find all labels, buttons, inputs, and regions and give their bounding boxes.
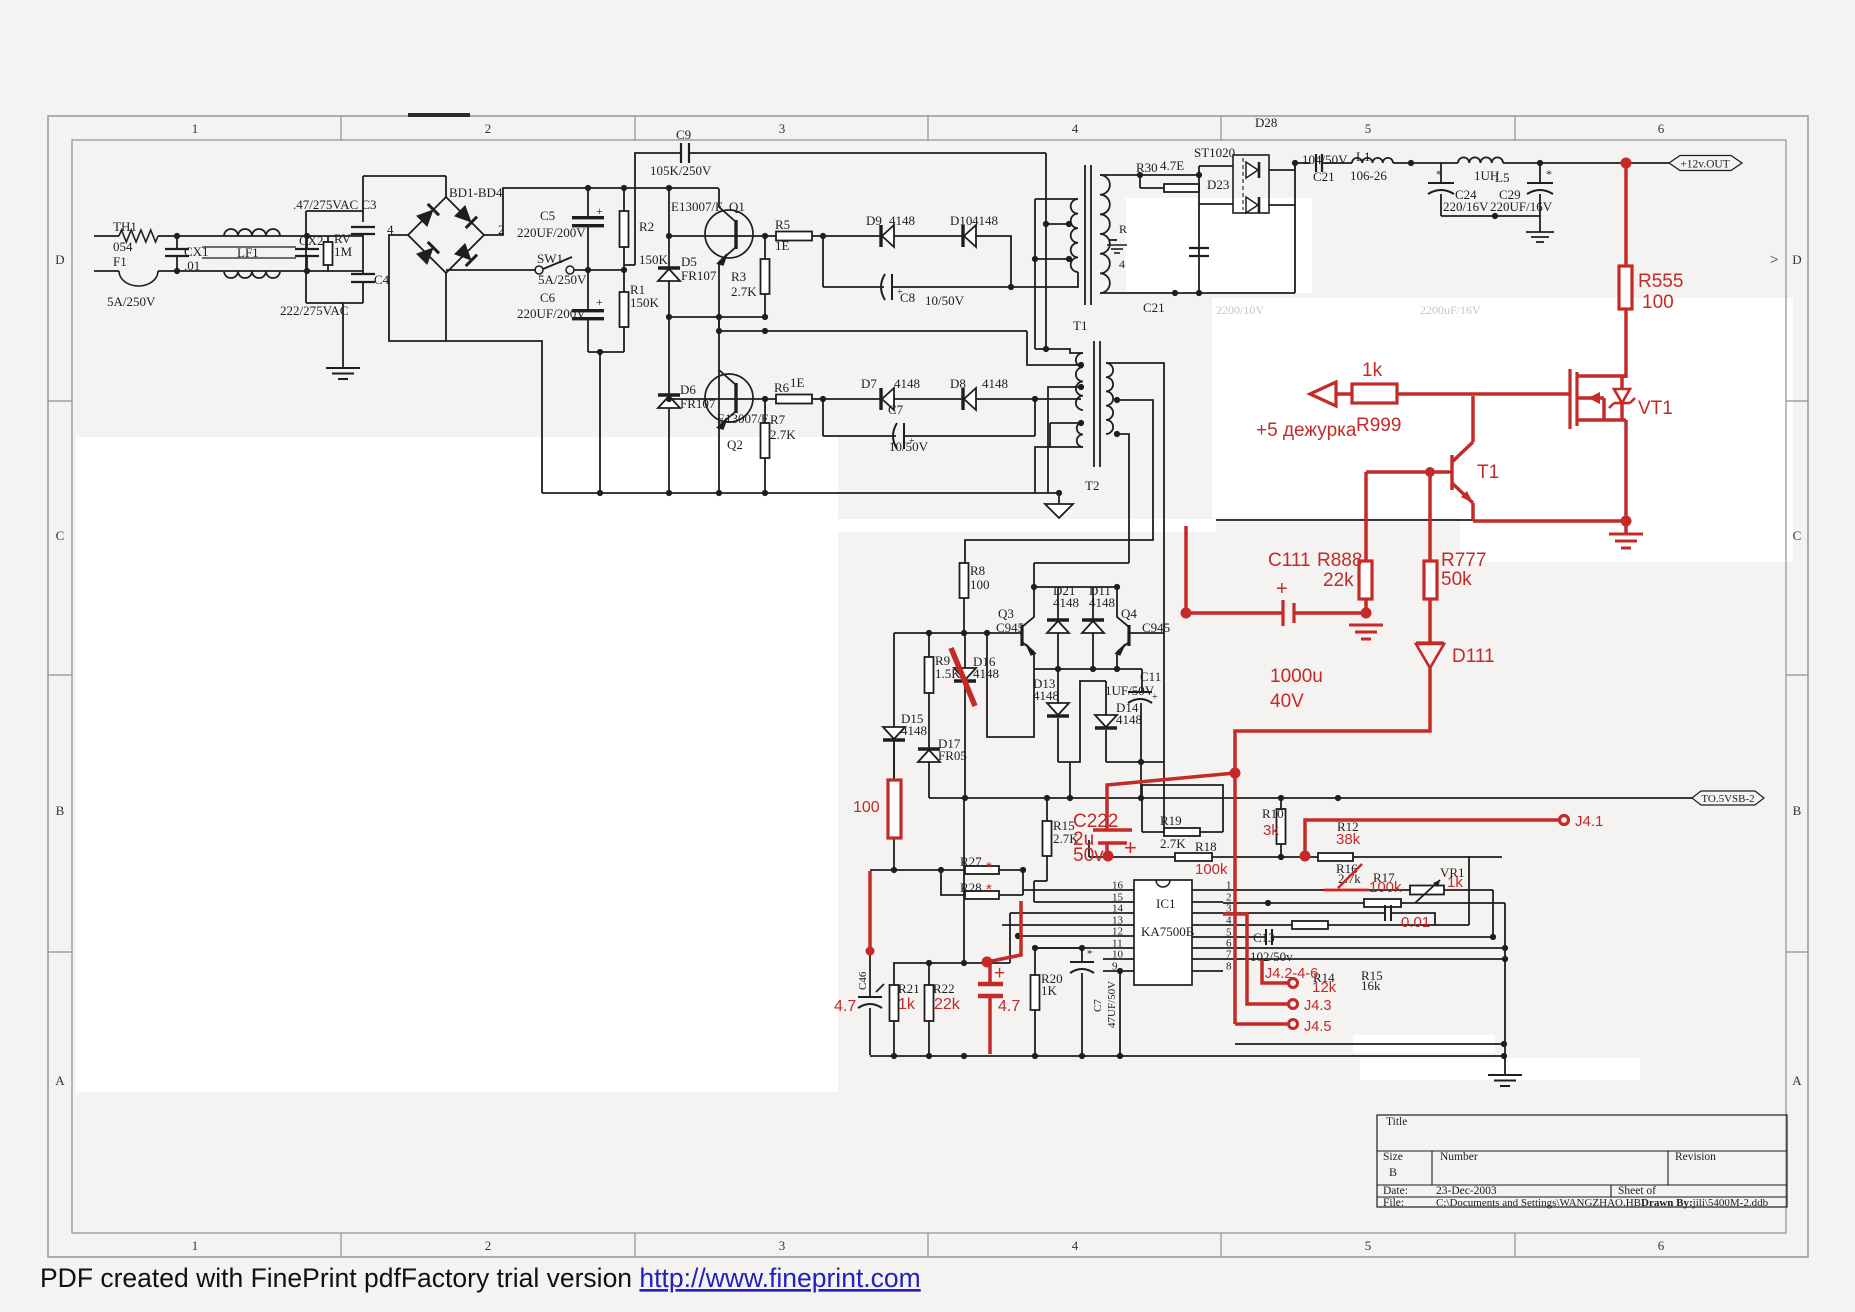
red label VT1: [1638, 398, 1673, 419]
svg-text:PDF created with FinePrint pdf: PDF created with FinePrint pdfFactory tr…: [40, 1263, 921, 1293]
svg-text:0.01: 0.01: [1401, 914, 1430, 931]
wire: [1401, 902, 1505, 904]
resistor R19 loop: [1142, 785, 1223, 851]
switch SW1: [535, 251, 587, 287]
wire: [94, 235, 119, 237]
svg-text:C21: C21: [1313, 169, 1335, 184]
svg-text:R777: R777: [1441, 550, 1486, 571]
red label C111 plus: [1276, 578, 1288, 600]
wire: [1198, 166, 1200, 293]
wire: [1009, 913, 1011, 963]
junction: [926, 960, 932, 966]
svg-text:*: *: [986, 859, 992, 876]
red star R27: [986, 859, 992, 876]
svg-text:4.7: 4.7: [834, 998, 856, 1015]
wire C9 left: [635, 153, 681, 265]
svg-text:16k: 16k: [1361, 978, 1381, 993]
wire gnd rail 3: [1235, 1043, 1504, 1045]
svg-text:+: +: [1276, 578, 1288, 600]
wire: [1444, 889, 1493, 891]
red label 100k R18: [1195, 861, 1228, 878]
svg-text:+: +: [596, 295, 603, 309]
svg-text:4148: 4148: [1053, 595, 1079, 610]
wire: [718, 317, 720, 331]
wire: [718, 188, 719, 189]
red label 4.7b: [998, 998, 1020, 1015]
scan artifact mark: [408, 113, 470, 117]
svg-text:C: C: [56, 528, 65, 543]
wire: [574, 269, 624, 271]
svg-text:1E: 1E: [790, 375, 805, 390]
svg-text:J4.3: J4.3: [1304, 998, 1331, 1014]
red label 22k R22: [934, 996, 961, 1013]
transistor Q4: [1116, 587, 1171, 655]
junction: [961, 630, 967, 636]
wire: [1045, 153, 1047, 349]
red label 22k: [1323, 570, 1354, 591]
junction: [1114, 397, 1120, 403]
pin 11: [1103, 938, 1134, 950]
resistor R28: [960, 880, 999, 899]
svg-text:220UF/200V: 220UF/200V: [517, 306, 586, 321]
wire to gnd right: [1504, 903, 1506, 1075]
inductor L1: [1350, 149, 1393, 183]
junction: [1114, 584, 1120, 590]
junction: [1078, 384, 1084, 390]
red junction: [866, 947, 875, 956]
svg-text:TO.5VSB-2: TO.5VSB-2: [1701, 793, 1754, 805]
wire: [1049, 423, 1051, 447]
resistor R9: [925, 633, 962, 700]
svg-text:4.7E: 4.7E: [1160, 158, 1184, 173]
title block: [1377, 1115, 1787, 1209]
ghost text 1: [1216, 303, 1264, 317]
junction: [820, 396, 826, 402]
junction: [938, 867, 944, 873]
wire: [1272, 936, 1493, 938]
red wire J-bus: [1233, 773, 1237, 1024]
wire R27 row: [870, 869, 965, 871]
svg-text:Date:: Date:: [1383, 1185, 1408, 1197]
label D28: [1255, 115, 1277, 130]
svg-text:4148: 4148: [901, 723, 927, 738]
junction: [961, 1053, 967, 1059]
junction: [1137, 172, 1143, 178]
red label 1000u: [1270, 666, 1323, 687]
svg-text:220UF/200V: 220UF/200V: [517, 225, 586, 240]
junction: [1278, 795, 1284, 801]
svg-text:10/50V: 10/50V: [925, 293, 965, 308]
svg-text:L5: L5: [1495, 170, 1509, 185]
wire sec gnd rail: [1216, 519, 1474, 521]
junction: [1015, 933, 1021, 939]
wire: [158, 235, 307, 237]
red wire diag C222: [1107, 773, 1235, 830]
svg-text:+: +: [897, 287, 903, 298]
diode D5: [658, 188, 717, 317]
junction: [1032, 945, 1038, 951]
red label R555: [1638, 271, 1683, 292]
junction: [1502, 945, 1508, 951]
pin 5: [1192, 927, 1232, 939]
svg-text:222/275VAC: 222/275VAC: [280, 303, 348, 318]
red MOSFET VT1: [1570, 369, 1635, 429]
red label 50k: [1441, 569, 1472, 590]
wire pin11: [1035, 947, 1103, 949]
svg-text:5: 5: [1365, 1238, 1372, 1253]
svg-text:R999: R999: [1356, 415, 1401, 436]
wire: [1033, 563, 1035, 587]
svg-text:C6: C6: [540, 290, 556, 305]
junction: [666, 233, 672, 239]
junction: [762, 328, 768, 334]
junction: [597, 349, 603, 355]
red slash R16: [1338, 864, 1362, 888]
svg-text:C46: C46: [857, 971, 869, 990]
junction: [1114, 666, 1120, 672]
svg-text:2: 2: [485, 121, 492, 136]
svg-text:+: +: [1152, 692, 1158, 703]
svg-text:*: *: [1546, 167, 1552, 181]
svg-text:Number: Number: [1440, 1151, 1478, 1163]
wire: [1034, 199, 1036, 349]
label 2.7k R16: [1338, 871, 1361, 886]
wire drive node: [717, 330, 1027, 332]
wire: [1035, 349, 1083, 353]
svg-text:R6: R6: [774, 380, 790, 395]
junction: [1008, 284, 1014, 290]
wire: [1033, 881, 1035, 902]
red label 40V: [1270, 691, 1304, 712]
junction: [1492, 213, 1498, 219]
svg-text:D111: D111: [1452, 646, 1495, 667]
white strip mid: [838, 519, 1216, 532]
junction: [1138, 759, 1144, 765]
junction: [926, 1053, 932, 1059]
capacitor C8: [823, 236, 1011, 308]
resistor R20: [1031, 948, 1063, 1055]
label R16: [1336, 861, 1358, 876]
svg-text:1M: 1M: [334, 244, 353, 259]
svg-text:T2: T2: [1085, 478, 1099, 493]
svg-text:4.7: 4.7: [998, 998, 1020, 1015]
capacitor CX1: [165, 236, 209, 273]
junction: [962, 795, 968, 801]
svg-text:R30: R30: [1136, 160, 1158, 175]
wire pin5 row: [1223, 936, 1266, 938]
svg-text:R: R: [1119, 222, 1127, 236]
junction: [1032, 1053, 1038, 1059]
svg-text:150K: 150K: [639, 252, 669, 267]
svg-text:+: +: [909, 436, 915, 447]
svg-text:C21: C21: [1143, 300, 1165, 315]
wire: [1069, 762, 1071, 798]
svg-text:VT1: VT1: [1638, 398, 1673, 419]
wire 222 node: [306, 302, 363, 304]
svg-text:B: B: [1793, 803, 1802, 818]
resistor R27: [960, 854, 999, 874]
wire bridge + to rail: [484, 188, 588, 235]
wire gnd rail 2: [870, 1055, 1504, 1057]
label R14: [1313, 970, 1335, 985]
pin 10: [1103, 949, 1134, 961]
red arrow +5standby: [1310, 382, 1352, 406]
fuse F1: [94, 254, 158, 309]
junction: [1172, 290, 1178, 296]
wire: [1034, 562, 1129, 564]
red wire R27col: [987, 901, 1021, 962]
red label 4.7a: [834, 998, 856, 1015]
red resistor R777: [1424, 472, 1437, 643]
red label 100: [1642, 292, 1674, 313]
varistor RV: [324, 231, 353, 271]
svg-text:2.7K: 2.7K: [731, 284, 757, 299]
red ground (C111): [1349, 625, 1383, 639]
wire: [894, 235, 963, 237]
red wire J4.2: [1223, 914, 1288, 1004]
wire: [1069, 272, 1078, 287]
svg-text:1k: 1k: [898, 996, 916, 1013]
junction: [891, 867, 897, 873]
gray arrow mark: [1770, 251, 1778, 267]
white patch bottom right 2: [1360, 1058, 1640, 1080]
wire Q1 base from D5 node: [669, 235, 735, 237]
potentiometer VR1: [1410, 865, 1465, 903]
svg-text:100: 100: [970, 577, 990, 592]
wire pin16: [1023, 889, 1103, 891]
wire: [1294, 163, 1296, 293]
junction: [762, 233, 768, 239]
transformer T2: [1076, 341, 1113, 493]
svg-text:C7: C7: [888, 402, 904, 417]
red label J4.2-4-6: [1265, 966, 1318, 982]
wire pin13: [1002, 924, 1103, 926]
svg-text:A: A: [1792, 1073, 1802, 1088]
svg-text:Q3: Q3: [998, 606, 1014, 621]
capacitor C13: [1250, 929, 1293, 964]
red label 50v: [1073, 845, 1104, 866]
capacitor C24: [1428, 163, 1489, 216]
pin 6: [1192, 938, 1505, 950]
red transistor T1: [1452, 396, 1473, 521]
svg-text:3: 3: [779, 121, 786, 136]
wire: [1034, 880, 1047, 882]
wire: [307, 270, 363, 272]
red connector J4.3: [1289, 1000, 1298, 1009]
svg-text:IC1: IC1: [1156, 896, 1176, 911]
junction: [762, 490, 768, 496]
red label C222 plus: [1124, 835, 1137, 860]
svg-text:12: 12: [1112, 926, 1123, 938]
label R15b: [1361, 968, 1383, 983]
svg-text:220/16V: 220/16V: [1443, 199, 1489, 214]
wire: [362, 211, 364, 222]
svg-text:D9: D9: [866, 213, 882, 228]
ghost text 2: [1420, 303, 1481, 317]
label D23: [1207, 177, 1229, 192]
pin 14: [1103, 903, 1134, 915]
svg-text:6: 6: [1658, 1238, 1665, 1253]
wire to T1: [1011, 286, 1069, 288]
svg-text:D8: D8: [950, 376, 966, 391]
svg-text:Q4: Q4: [1121, 606, 1137, 621]
svg-text:1k: 1k: [1447, 874, 1463, 891]
capacitor C7drv: [823, 399, 1035, 454]
wire pin15: [1034, 901, 1103, 903]
diode D17: [918, 700, 967, 798]
junction: [984, 630, 990, 636]
red label J4.3: [1304, 998, 1331, 1014]
svg-text:+: +: [596, 204, 603, 218]
wire T2 sec 2: [1106, 363, 1164, 832]
svg-text:.47/275VAC C3: .47/275VAC C3: [293, 197, 377, 212]
svg-text:C111: C111: [1268, 550, 1311, 571]
junction: [1335, 795, 1341, 801]
svg-text:4: 4: [1226, 915, 1232, 927]
red junction: [982, 957, 993, 968]
capacitor C3: [351, 227, 375, 271]
junction: [1078, 362, 1084, 368]
svg-text:C: C: [1793, 528, 1802, 543]
red label C111: [1268, 550, 1311, 571]
svg-text:D6: D6: [680, 382, 696, 397]
svg-text:2200/10V: 2200/10V: [1216, 303, 1264, 317]
junction: [1117, 1053, 1123, 1059]
svg-text:4148: 4148: [894, 376, 920, 391]
wire: [1089, 856, 1142, 858]
red label T1: [1477, 462, 1499, 483]
svg-text:104/50V: 104/50V: [1302, 152, 1348, 167]
wire: [893, 741, 895, 780]
wire T1 sec bottom: [1100, 292, 1295, 294]
svg-text:*: *: [986, 881, 992, 898]
svg-text:R5: R5: [775, 217, 790, 232]
red wire emitter run: [1473, 519, 1626, 523]
red label J4.1: [1575, 813, 1603, 830]
pin 16: [1103, 880, 1134, 892]
red wire J4.2b: [1262, 960, 1288, 983]
svg-text:3k: 3k: [1263, 822, 1279, 839]
wire: [893, 838, 895, 870]
red label 0.01: [1401, 914, 1430, 931]
svg-text:T1: T1: [1073, 318, 1087, 333]
wire: [1050, 422, 1081, 424]
svg-text:R10: R10: [1262, 806, 1284, 821]
svg-text:5A/250V: 5A/250V: [538, 272, 587, 287]
svg-text:J4.1: J4.1: [1575, 813, 1603, 830]
red capacitor C222: [1093, 830, 1132, 856]
svg-text:D28: D28: [1255, 115, 1277, 130]
IC U1 KA7500B: [1134, 880, 1195, 985]
svg-text:D10: D10: [950, 213, 972, 228]
capacitor CX2: [295, 233, 324, 271]
svg-text:4: 4: [1072, 1238, 1079, 1253]
svg-text:1k: 1k: [1362, 360, 1383, 381]
svg-text:22k: 22k: [934, 996, 961, 1013]
wire: [1022, 870, 1024, 895]
pin 8: [1192, 961, 1232, 973]
bridge diode BD3: [416, 242, 439, 265]
transformer T1: [1071, 165, 1110, 333]
wire: [1503, 162, 1626, 164]
white patch T1: [1126, 198, 1312, 293]
label BD1-BD4: [449, 185, 503, 200]
red capacitor 4.7: [978, 962, 1003, 1054]
svg-text:50k: 50k: [1441, 569, 1472, 590]
wire: [893, 868, 895, 870]
capacitor C21f: [1302, 152, 1348, 184]
junction: [1117, 968, 1123, 974]
svg-text:14: 14: [1112, 903, 1124, 915]
wire: [1140, 762, 1142, 798]
junction: [304, 268, 310, 274]
label 222/275VAC: [280, 303, 348, 318]
resistor R2: [620, 188, 669, 270]
svg-text:38k: 38k: [1336, 831, 1361, 848]
svg-text:23-Dec-2003: 23-Dec-2003: [1436, 1185, 1497, 1197]
svg-text:100: 100: [1642, 292, 1674, 313]
resistor R15: [1043, 798, 1080, 881]
junction: [1114, 431, 1120, 437]
diode D14: [1095, 681, 1142, 762]
pin 2: [1192, 892, 1232, 904]
svg-text:File:: File:: [1383, 1197, 1404, 1209]
red label 1k R21: [898, 996, 916, 1013]
svg-text:*: *: [1436, 167, 1442, 181]
resistor R6: [737, 375, 812, 404]
wire pin3 row: [1223, 912, 1385, 914]
junction: [1044, 795, 1050, 801]
white patch left: [76, 437, 838, 1092]
svg-text:B: B: [56, 803, 65, 818]
svg-text:C945: C945: [996, 620, 1024, 635]
wire Q1e-Q2c: [718, 262, 720, 492]
red label plus47: [994, 963, 1005, 984]
resistor R30: [1136, 158, 1199, 192]
svg-text:054: 054: [113, 239, 133, 254]
transistor Q1: [671, 189, 753, 265]
svg-text:+: +: [1124, 835, 1137, 860]
wire: [1626, 162, 1669, 164]
transistor Q3: [996, 587, 1036, 655]
resistor R10: [1262, 798, 1286, 856]
wire: [1035, 198, 1078, 200]
wire: [158, 270, 307, 272]
svg-text:102/50v: 102/50v: [1250, 949, 1293, 964]
svg-text:C:\Documents and Settings\WANG: C:\Documents and Settings\WANGZHAO.HBDra…: [1436, 1197, 1769, 1209]
wire: [1035, 398, 1081, 400]
svg-text:4148: 4148: [1033, 688, 1059, 703]
pin 9: [1103, 961, 1134, 973]
wire pin14: [1010, 912, 1103, 914]
wire: [362, 176, 364, 211]
svg-text:4148: 4148: [972, 213, 998, 228]
svg-text:SW1: SW1: [537, 251, 563, 266]
bridge diode BD4: [454, 243, 477, 266]
red wire source-gnd: [1624, 420, 1628, 521]
junction: [1055, 666, 1061, 672]
svg-text:220UF/16V: 220UF/16V: [1490, 199, 1553, 214]
svg-text:1: 1: [192, 1238, 199, 1253]
red wire J4.5: [1235, 1022, 1287, 1026]
diode D15: [883, 633, 927, 780]
capacitor C21v: [1189, 248, 1209, 256]
inductor L5: [1458, 157, 1509, 185]
svg-text:4148: 4148: [1089, 595, 1115, 610]
red connector J4.2-4-6: [1289, 979, 1298, 988]
junction: [1020, 867, 1026, 873]
svg-text:Revision: Revision: [1675, 1151, 1716, 1163]
